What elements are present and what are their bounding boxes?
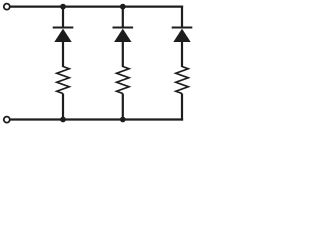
diode D2 (113, 28, 134, 43)
wire branch1 middle vertical (62, 41, 64, 67)
wire branch1 top vertical (62, 7, 64, 29)
junction node top of branch2 (120, 4, 126, 10)
wire branch2 top vertical (122, 7, 124, 29)
resistor R3 (176, 67, 188, 94)
resistor R1 (57, 67, 69, 94)
junction node bottom of branch1 (60, 117, 66, 123)
terminal J2 (bottom left input) (4, 117, 10, 123)
resistor R2 (117, 67, 129, 94)
wire branch3 middle vertical (181, 41, 183, 67)
wire branch1 bottom vertical (62, 94, 64, 120)
wire top bus (10, 5, 183, 7)
diode D3 (172, 28, 193, 43)
wire bottom bus (10, 118, 183, 120)
diode D1 (53, 28, 74, 43)
junction node top of branch1 (60, 4, 66, 10)
terminal J1 (top left input) (4, 4, 10, 10)
wire branch2 bottom vertical (122, 94, 124, 120)
junction node bottom of branch2 (120, 117, 126, 123)
wire branch3 bottom vertical (181, 94, 183, 121)
wire branch3 top vertical (181, 6, 183, 29)
wire branch2 middle vertical (122, 41, 124, 67)
